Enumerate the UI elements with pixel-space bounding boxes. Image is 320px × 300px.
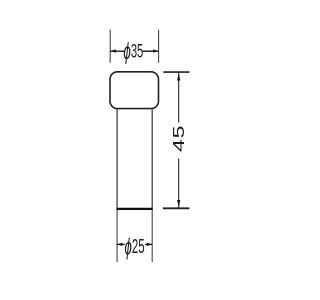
svg-text:45: 45 <box>171 125 189 152</box>
svg-text:ϕ25: ϕ25 <box>125 235 145 261</box>
svg-text:ϕ35: ϕ35 <box>123 38 143 64</box>
